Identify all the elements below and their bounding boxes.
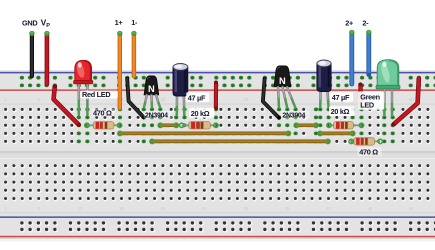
svg-text:LED: LED	[360, 101, 374, 110]
svg-text:25: 25	[202, 206, 207, 211]
svg-text:1-: 1-	[131, 18, 138, 27]
svg-text:30: 30	[243, 97, 248, 102]
svg-text:47 µF: 47 µF	[332, 93, 350, 102]
svg-text:45: 45	[368, 206, 373, 211]
svg-text:10: 10	[78, 206, 83, 211]
svg-text:40: 40	[326, 206, 331, 211]
svg-text:2-: 2-	[362, 18, 369, 27]
svg-text:2N3904: 2N3904	[145, 112, 168, 119]
svg-text:50: 50	[409, 206, 414, 211]
svg-text:35: 35	[285, 206, 290, 211]
svg-text:30: 30	[243, 206, 248, 211]
svg-text:50: 50	[409, 97, 414, 102]
svg-text:47 µF: 47 µF	[188, 93, 206, 102]
svg-text:15: 15	[119, 206, 124, 211]
svg-text:20 kΩ: 20 kΩ	[191, 109, 210, 118]
svg-text:N: N	[148, 84, 155, 94]
svg-text:Red LED: Red LED	[82, 90, 110, 99]
svg-text:470 Ω: 470 Ω	[359, 147, 378, 156]
svg-text:GND: GND	[22, 18, 37, 27]
svg-text:1+: 1+	[115, 18, 123, 27]
svg-text:2N3904: 2N3904	[282, 113, 305, 120]
svg-text:20: 20	[161, 206, 166, 211]
svg-text:2+: 2+	[345, 18, 353, 27]
svg-text:470 Ω: 470 Ω	[93, 108, 112, 117]
svg-text:N: N	[279, 76, 286, 86]
svg-text:20 kΩ: 20 kΩ	[331, 107, 350, 116]
svg-text:20: 20	[161, 97, 166, 102]
